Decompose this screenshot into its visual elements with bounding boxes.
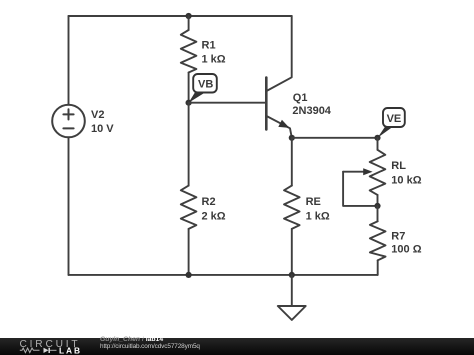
wire RE top lead [291, 138, 293, 186]
label RE 1 kΩ [306, 196, 330, 223]
wire RE bottom lead [291, 229, 293, 275]
potentiometer RL [343, 150, 385, 206]
node label VE [378, 108, 405, 138]
svg-text:2 kΩ: 2 kΩ [202, 210, 226, 222]
svg-text:LAB: LAB [59, 345, 82, 355]
svg-text:R2: R2 [202, 196, 216, 208]
node VE junction [374, 135, 380, 141]
node label VB [189, 74, 217, 103]
label V2 10 V [91, 109, 114, 135]
wire R1 bottom lead [188, 73, 190, 103]
label R1 1 kΩ [202, 40, 226, 66]
wire R2 bottom lead [188, 229, 190, 275]
resistor R2 [181, 186, 197, 229]
svg-text:1 kΩ: 1 kΩ [306, 210, 330, 222]
node emitter junction [289, 135, 295, 141]
label R7 100 Ω [391, 230, 421, 255]
svg-text:RL: RL [391, 160, 406, 172]
wire top rail [69, 15, 292, 17]
svg-text:10 V: 10 V [91, 123, 114, 135]
voltage source V2 [52, 105, 85, 138]
resistor RE [284, 186, 300, 229]
svg-text:V2: V2 [91, 109, 104, 121]
svg-text:Q1: Q1 [293, 92, 308, 104]
footer url line [100, 344, 200, 350]
transistor Q1 [266, 16, 292, 138]
wire left rail lower [68, 137, 70, 275]
footer bar [0, 338, 474, 355]
svg-text:2N3904: 2N3904 [292, 105, 331, 117]
node RL wiper junction [374, 203, 380, 209]
label RL 10 kΩ [391, 160, 421, 186]
resistor R7 [370, 221, 386, 260]
CircuitLab logo [0, 336, 92, 355]
wire R7 top lead [377, 206, 379, 221]
label Q1 2N3904 [292, 92, 331, 117]
node ground junction [289, 272, 295, 278]
label R2 2 kΩ [202, 196, 226, 223]
svg-text:RE: RE [306, 196, 321, 208]
wire emitter rail [292, 137, 378, 139]
node R2 bottom junction [186, 272, 192, 278]
svg-text:1 kΩ: 1 kΩ [202, 54, 226, 66]
footer credit line [100, 337, 163, 344]
wire base lead [189, 102, 267, 104]
svg-text:R7: R7 [391, 230, 405, 242]
resistor R1 [181, 30, 197, 73]
ground [278, 275, 306, 320]
wire RL bottom lead [377, 195, 379, 206]
wire R1 top lead [188, 16, 190, 30]
node top junction [186, 13, 192, 19]
svg-text:10 kΩ: 10 kΩ [391, 175, 421, 187]
svg-text:VB: VB [198, 79, 213, 91]
node VB junction [186, 100, 192, 106]
svg-text:VE: VE [387, 113, 402, 125]
wire bottom rail [69, 274, 378, 276]
wire left rail upper [68, 16, 70, 105]
wire RL top lead [377, 138, 379, 150]
svg-text:100 Ω: 100 Ω [391, 243, 421, 255]
wire R7 bottom lead [377, 260, 379, 275]
wire R2 top lead [188, 103, 190, 186]
svg-text:R1: R1 [202, 40, 216, 52]
